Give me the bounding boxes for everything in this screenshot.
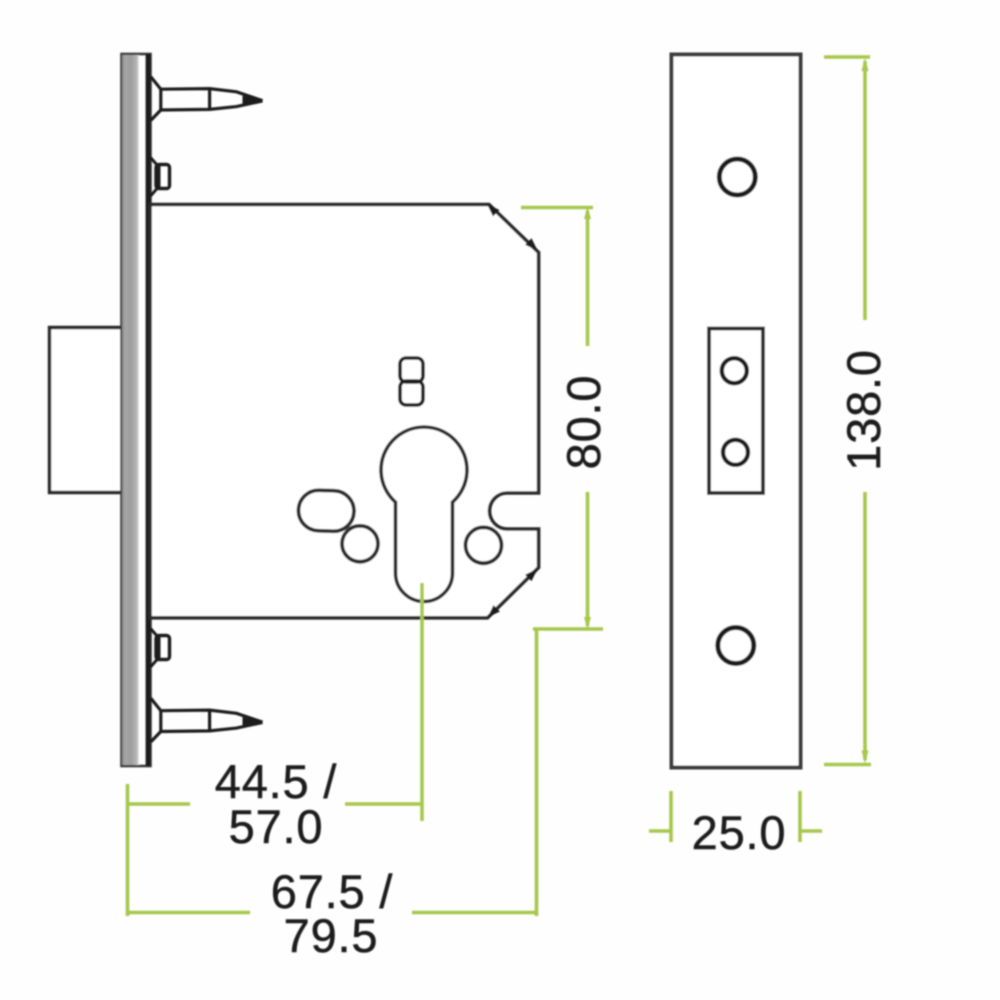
faceplate shading stripe — [122, 55, 139, 765]
faceplate side view (left drawing) — [122, 54, 151, 766]
bottom fixing screw — [151, 698, 263, 742]
44.5/57.0 dim — [126, 784, 130, 916]
cutout small hole top — [722, 358, 747, 383]
svg-text:57.0: 57.0 — [229, 800, 324, 853]
small circle right — [466, 527, 502, 563]
green arrowheads — [584, 58, 869, 764]
svg-text:138.0: 138.0 — [837, 349, 890, 471]
svg-text:80.0: 80.0 — [557, 375, 610, 470]
bolt cutout — [709, 329, 763, 494]
top screw solid tip — [243, 96, 263, 106]
top fixing screw — [151, 77, 263, 121]
svg-text:25.0: 25.0 — [692, 806, 787, 859]
dimension texts — [215, 349, 890, 962]
25.0 dim — [669, 791, 673, 842]
deadbolt (left, thrown) — [50, 328, 131, 493]
small circle below capsule — [342, 526, 378, 562]
top screw hole — [719, 159, 755, 195]
67.5/79.5 dim — [535, 630, 539, 916]
left slotted hole (capsule) — [298, 490, 355, 532]
chamfer arrowheads (black) — [487, 204, 499, 216]
80.0 dim — [521, 206, 593, 210]
bottom fixing lug — [151, 629, 170, 668]
cutout small hole bottom — [723, 440, 748, 465]
138.0 dim — [824, 55, 870, 59]
top fixing lug — [151, 158, 170, 197]
bottom screw hole — [718, 628, 754, 664]
lock body outline — [150, 205, 539, 618]
svg-text:79.5: 79.5 — [284, 909, 379, 962]
faceplate inner face line (thick right edge) — [146, 54, 151, 766]
euro cylinder keyhole — [381, 427, 467, 601]
spindle follower symbol ("8" shape) — [400, 358, 423, 405]
